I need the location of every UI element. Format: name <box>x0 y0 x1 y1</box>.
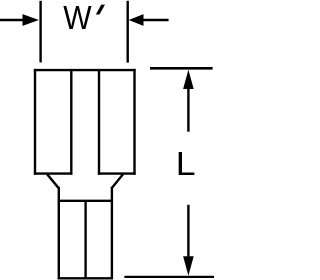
svg-text:W: W <box>63 0 92 36</box>
svg-text:L: L <box>176 146 196 183</box>
